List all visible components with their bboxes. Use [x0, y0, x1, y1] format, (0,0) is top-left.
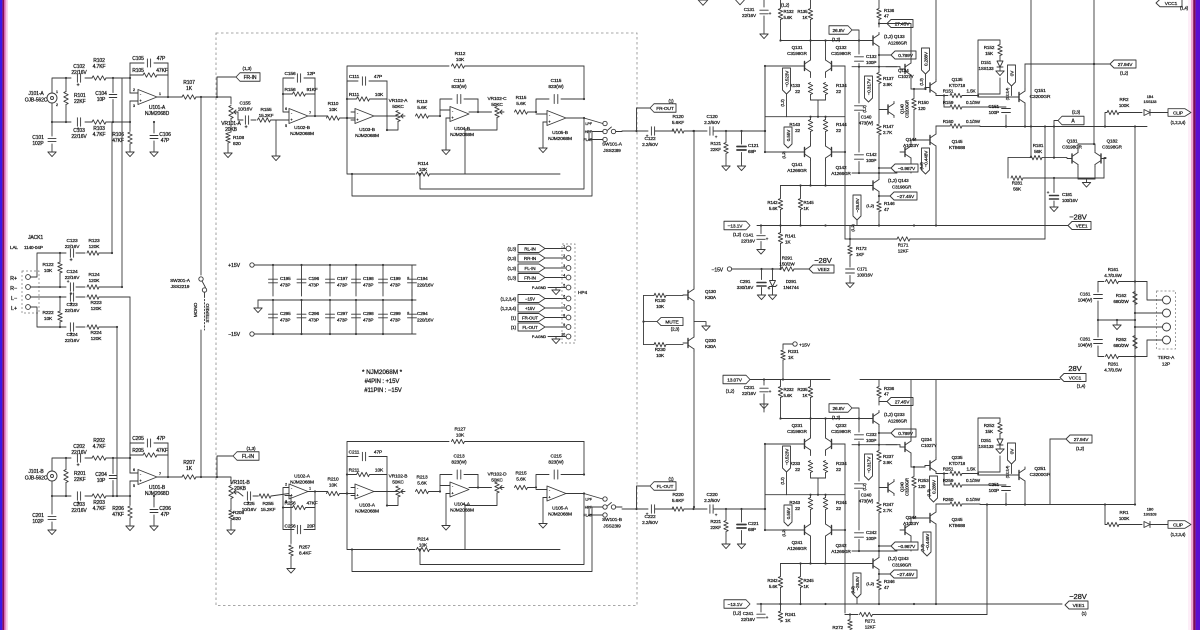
svg-text:U105-B: U105-B: [552, 130, 568, 136]
svg-text:A1266GR: A1266GR: [787, 168, 807, 173]
svg-text:22: 22: [795, 89, 800, 94]
svg-text:R291: R291: [782, 256, 793, 261]
svg-text:FL-IN: FL-IN: [525, 266, 536, 271]
svg-text:C101: C101: [32, 135, 44, 141]
svg-text:(1,2): (1,2): [851, 224, 855, 232]
wire fb return 2 (ch2): [351, 507, 592, 572]
svg-text:(2,3): (2,3): [507, 256, 516, 261]
power rail VCC ch1: [781, 3, 790, 8]
svg-text:SW201-A: SW201-A: [170, 278, 191, 284]
wire fb return 1 (ch2): [419, 494, 584, 565]
svg-text:-: -: [452, 108, 454, 113]
capacitor C211 (ch2): [347, 450, 387, 494]
svg-text:22: 22: [836, 506, 841, 511]
svg-text:5.6K: 5.6K: [417, 481, 427, 487]
svg-text:R101: R101: [74, 93, 86, 99]
diode D281: [1144, 508, 1168, 528]
svg-text:C251: C251: [988, 482, 999, 487]
rail collector NPN 2: [779, 417, 868, 419]
wire cap bank mid: [254, 300, 416, 313]
svg-text:(1,2): (1,2): [866, 581, 874, 586]
wire U102-A fb (ch2): [308, 490, 327, 529]
svg-text:NJM2068M: NJM2068M: [450, 132, 474, 138]
resistor R133: [789, 74, 812, 100]
svg-text:NJM2068M: NJM2068M: [450, 508, 474, 514]
svg-text:1: 1: [159, 92, 161, 96]
resistor R205: [130, 448, 168, 457]
svg-text:C3198GR: C3198GR: [892, 563, 912, 568]
svg-text:JSS23I9: JSS23I9: [603, 524, 621, 530]
wire mid speaker: [1097, 319, 1136, 321]
transistor Q143: [868, 178, 912, 194]
svg-text:FR-IN: FR-IN: [244, 75, 257, 81]
svg-text:(1,2): (1,2): [782, 151, 786, 159]
svg-text:FLAT: FLAT: [583, 138, 592, 142]
wire U101-A -in: [129, 77, 131, 93]
svg-text:R251: R251: [943, 467, 954, 472]
svg-text:R137: R137: [883, 76, 894, 81]
svg-text:680/2W: 680/2W: [1113, 343, 1129, 348]
capacitor C161: [1078, 282, 1103, 321]
flag -26.8V 2: [851, 573, 861, 604]
svg-text:2: 2: [56, 103, 58, 107]
transistor Q235: [925, 455, 966, 474]
svg-text:(1,3): (1,3): [927, 489, 931, 497]
wire Q135 collector: [935, 380, 937, 458]
svg-text:22/16V: 22/16V: [71, 450, 87, 456]
transistor Q234: [886, 437, 937, 455]
wire Q142 col down: [824, 538, 826, 565]
flag -13.1V 2: [724, 600, 750, 616]
flag -0.317V 1: [863, 76, 873, 113]
svg-text:100P: 100P: [866, 158, 876, 163]
resistor R150: [912, 89, 929, 141]
svg-text:C206: C206: [159, 506, 171, 512]
svg-text:12P: 12P: [307, 71, 315, 77]
left page border: [0, 0, 8, 630]
wire jack A bottom: [52, 103, 71, 122]
svg-text:473P: 473P: [337, 318, 347, 323]
wire U104-A fb (ch2): [469, 475, 488, 489]
svg-text:1K: 1K: [802, 393, 807, 398]
resistor R241: [778, 604, 796, 623]
svg-text:(1,3): (1,3): [920, 78, 924, 86]
svg-text:+: +: [646, 512, 649, 517]
svg-text:0.55V: 0.55V: [786, 129, 791, 142]
svg-text:Q130: Q130: [705, 289, 716, 294]
svg-text:C106: C106: [159, 132, 171, 138]
svg-text:47KF: 47KF: [112, 512, 124, 518]
svg-text:47: 47: [884, 207, 889, 212]
capacitor C105: [130, 56, 168, 78]
capacitor C220: [704, 492, 766, 518]
svg-text:2.2/50V: 2.2/50V: [704, 120, 721, 126]
svg-text:(1,2): (1,2): [1120, 71, 1129, 76]
svg-text:1K: 1K: [785, 240, 791, 245]
svg-text:4.7/0.5W: 4.7/0.5W: [1104, 368, 1122, 373]
flag −15V (HP4): [501, 295, 566, 303]
svg-text:473P: 473P: [309, 318, 319, 323]
svg-text:R123: R123: [88, 238, 99, 244]
svg-text:120: 120: [918, 106, 926, 111]
svg-text:C115: C115: [551, 78, 562, 84]
flag CLIP lower: [1168, 521, 1191, 537]
wire fb return 2 (ch1): [351, 132, 592, 197]
wire U101-B +in: [129, 481, 131, 497]
wire Q134 emitter: [878, 22, 911, 61]
svg-text:R134: R134: [836, 83, 847, 88]
svg-text:R201: R201: [74, 471, 86, 477]
ground U102-B +in (ch1): [272, 120, 285, 161]
wire Q133 col: [878, 427, 880, 445]
svg-text:15.2KF: 15.2KF: [259, 113, 274, 119]
ground P-AGND upper: [532, 286, 566, 295]
svg-text:C3198GR: C3198GR: [831, 51, 852, 56]
op-amp U101-B: [130, 468, 170, 497]
svg-text:VR101-B: VR101-B: [230, 480, 250, 486]
svg-text:RL-IN: RL-IN: [524, 246, 536, 251]
svg-text:C124: C124: [66, 269, 77, 275]
svg-text:R112: R112: [455, 51, 466, 57]
svg-text:VEE1: VEE1: [1073, 603, 1085, 609]
svg-text:(1): (1): [511, 325, 517, 330]
svg-text:C194: C194: [417, 276, 428, 281]
flag FL-IN: [217, 446, 259, 477]
capacitor C111 (ch1): [347, 74, 387, 118]
svg-text:+: +: [548, 119, 551, 124]
svg-text:68P: 68P: [748, 149, 756, 154]
svg-text:R121: R121: [710, 141, 721, 146]
resistor R101: [64, 77, 86, 123]
resistor R255: [259, 494, 289, 514]
svg-text:C197: C197: [337, 276, 348, 281]
svg-text:50KC: 50KC: [491, 478, 503, 484]
svg-text:(1,2): (1,2): [781, 3, 790, 8]
svg-text:22: 22: [795, 506, 800, 511]
flag -0.317V 2: [863, 454, 873, 491]
svg-text:P-AGND: P-AGND: [532, 335, 547, 339]
resistor R136: [877, 0, 895, 27]
right page border: [1188, 0, 1200, 630]
svg-text:CLIP: CLIP: [1173, 111, 1183, 116]
flag 26.8V 2: [829, 404, 859, 420]
resistor R135: [797, 0, 812, 58]
svg-text:+: +: [77, 83, 80, 89]
ground Q130 Q230: [702, 326, 710, 331]
capacitor C199: [379, 264, 402, 301]
svg-text:1: 1: [309, 487, 311, 491]
svg-text:-: -: [291, 486, 293, 491]
svg-text:10/16V: 10/16V: [242, 507, 258, 513]
svg-text:JACK1: JACK1: [28, 235, 43, 241]
svg-text:3: 3: [133, 104, 135, 108]
resistor R122: [42, 252, 62, 288]
svg-text:C221: C221: [748, 521, 759, 526]
svg-text:+15V: +15V: [228, 263, 240, 269]
svg-text:100/16V: 100/16V: [857, 272, 873, 277]
svg-text:22: 22: [795, 467, 800, 472]
svg-text:−26.8V: −26.8V: [855, 197, 860, 212]
svg-text:+: +: [451, 491, 454, 496]
switch SW201-A: [170, 97, 211, 477]
svg-text:+15V: +15V: [799, 343, 811, 349]
svg-text:10K: 10K: [456, 433, 465, 439]
resistor R245: [798, 562, 814, 605]
resistor R181: [1008, 0, 1067, 160]
svg-text:22: 22: [795, 128, 800, 133]
potentiometer VR102-C (ch1): [465, 96, 507, 174]
svg-text:47KF: 47KF: [156, 68, 168, 74]
svg-text:R210: R210: [327, 477, 338, 483]
connector JACK1: [10, 235, 43, 313]
svg-text:R151: R151: [943, 89, 954, 94]
svg-text:R152: R152: [984, 45, 995, 50]
svg-text:6: 6: [133, 468, 135, 472]
svg-text:3: 3: [563, 264, 565, 268]
wire R123 to bus: [111, 122, 113, 253]
wire U105-B out (ch1): [566, 117, 585, 119]
svg-text:R246: R246: [884, 579, 895, 584]
svg-text:10K: 10K: [44, 268, 53, 274]
svg-text:(1): (1): [668, 477, 674, 482]
svg-text:FL-IN: FL-IN: [242, 454, 254, 460]
op-amp U102-A (ch2): [285, 474, 314, 504]
svg-text:KTB688: KTB688: [949, 523, 966, 528]
capacitor c115 U105-B (ch1): [536, 78, 584, 112]
svg-text:R206: R206: [112, 506, 124, 512]
svg-text:1K: 1K: [804, 206, 809, 211]
flag VEE1 lower: [1065, 592, 1088, 616]
svg-text:Q245: Q245: [952, 517, 963, 522]
svg-text:C3200GR: C3200GR: [905, 478, 910, 496]
svg-text:C181: C181: [1062, 192, 1073, 197]
svg-text:+: +: [356, 117, 359, 122]
svg-text:100P: 100P: [866, 438, 876, 443]
wire Q130 source: [694, 303, 706, 326]
transistor Q141: [787, 144, 810, 173]
svg-text:91KF: 91KF: [306, 87, 317, 93]
node -15V rail: [228, 332, 416, 338]
svg-text:R244: R244: [836, 500, 847, 505]
svg-text:Q181: Q181: [1067, 139, 1078, 144]
resistor R132: [778, 0, 794, 41]
capacitor C140: [855, 67, 874, 152]
svg-text:R203: R203: [93, 500, 105, 506]
wire Q134 collector: [911, 455, 925, 468]
svg-text:10P: 10P: [97, 97, 106, 103]
svg-text:473P: 473P: [363, 318, 373, 323]
svg-text:Q135: Q135: [952, 77, 963, 82]
capacitor C213 (ch2): [440, 454, 478, 492]
svg-text:Q235: Q235: [952, 455, 963, 460]
svg-text:1B4: 1B4: [1147, 95, 1153, 99]
svg-text:RR1: RR1: [1120, 510, 1129, 515]
resistor R235: [797, 380, 812, 437]
capacitor C297: [326, 300, 349, 335]
rail VAS lower 2: [852, 550, 897, 552]
svg-text:47: 47: [884, 14, 889, 19]
svg-text:7: 7: [159, 472, 161, 476]
svg-text:VCC1: VCC1: [1165, 1, 1178, 7]
svg-text:−13.1V: −13.1V: [728, 223, 744, 229]
svg-text:C102: C102: [73, 64, 85, 70]
svg-text:120K: 120K: [91, 336, 103, 342]
svg-text:120K: 120K: [91, 306, 103, 312]
svg-text:R222: R222: [42, 310, 53, 316]
flag -0.448V 1: [920, 148, 930, 174]
svg-text:R124: R124: [88, 272, 99, 278]
wire jack L-: [31, 296, 67, 298]
svg-text:C1027Y: C1027Y: [921, 443, 937, 448]
capacitor C171: [846, 267, 873, 284]
resistor R232: [778, 380, 794, 419]
svg-text:22/16V: 22/16V: [741, 239, 756, 244]
svg-text:R143: R143: [789, 122, 800, 127]
svg-text:−28V: −28V: [1069, 213, 1088, 222]
svg-text:C297: C297: [337, 311, 348, 316]
svg-text:LPF: LPF: [585, 498, 592, 502]
svg-text:1K: 1K: [785, 618, 791, 623]
svg-text:C198: C198: [363, 276, 374, 281]
wire Q143 col: [878, 551, 880, 556]
wire Q133 col: [878, 49, 880, 67]
svg-text:C196: C196: [309, 276, 320, 281]
transistor Q232: [826, 423, 852, 452]
svg-text:(1,3): (1,3): [247, 446, 257, 451]
svg-text:+: +: [766, 615, 769, 620]
svg-text:47: 47: [884, 392, 889, 397]
resistor R203: [85, 494, 130, 512]
connector TER2-A: [1135, 282, 1176, 368]
svg-text:R207: R207: [183, 460, 195, 466]
svg-text:(1): (1): [511, 316, 517, 321]
svg-text:50KC: 50KC: [392, 480, 404, 486]
wire jack A top: [52, 78, 71, 93]
svg-text:RR2: RR2: [1120, 97, 1129, 102]
svg-text:+: +: [548, 495, 551, 500]
svg-text:(1,2): (1,2): [851, 586, 855, 594]
capacitor C203: [71, 492, 87, 514]
capacitor C204: [95, 457, 117, 497]
resistor R281: [1008, 158, 1106, 192]
svg-text:KTB688: KTB688: [949, 145, 966, 150]
flag FR-OUT: [637, 99, 677, 132]
svg-text:R211: R211: [349, 468, 360, 474]
wire jack R-: [31, 286, 67, 288]
svg-text:Q251: Q251: [1034, 466, 1046, 472]
svg-text:-: -: [549, 488, 551, 493]
resistor R120: [672, 114, 707, 133]
capacitor C224: [65, 323, 85, 344]
resistor R260: [936, 497, 981, 510]
capacitor C151: [988, 104, 1010, 128]
svg-text:R271: R271: [865, 619, 876, 624]
capacitor C132: [855, 41, 878, 67]
svg-text:C3200GR: C3200GR: [1030, 472, 1051, 478]
rail VEE 1: [757, 224, 1068, 226]
svg-text:U103-B: U103-B: [359, 127, 375, 133]
resistor R124: [87, 272, 123, 289]
svg-text:1SS133: 1SS133: [978, 66, 994, 71]
wire U101-B -in: [129, 457, 131, 473]
svg-text:22: 22: [836, 128, 841, 133]
svg-text:R221: R221: [710, 519, 721, 524]
svg-text:-: -: [357, 486, 359, 491]
capacitor C221: [737, 509, 759, 549]
svg-text:R132: R132: [784, 9, 795, 14]
svg-text:(1,2) Q233: (1,2) Q233: [884, 412, 905, 417]
op-amp U102-B (ch1): [285, 107, 314, 137]
resistor RR1: [1104, 503, 1142, 526]
svg-text:0.286V: 0.286V: [931, 479, 936, 494]
note NJM2068M pins: [362, 369, 403, 394]
dashed filter section box: [216, 33, 637, 606]
power rail 13.07V ch2: [723, 375, 1060, 393]
svg-text:15K: 15K: [985, 429, 994, 434]
resistor R252 box: [978, 418, 1002, 474]
svg-text:(1,2) Q143: (1,2) Q143: [888, 178, 909, 183]
op-amp U104-B (ch1): [440, 107, 474, 139]
svg-text:R−: R−: [10, 286, 17, 292]
svg-text:120K: 120K: [89, 278, 101, 284]
svg-text:(1,2): (1,2): [726, 389, 735, 394]
svg-text:VEE1: VEE1: [1076, 223, 1088, 229]
svg-text:56K: 56K: [1034, 149, 1043, 154]
svg-text:FR-OUT: FR-OUT: [656, 106, 674, 112]
capacitor C104: [95, 77, 117, 123]
svg-text:R241: R241: [785, 612, 796, 617]
svg-text:+: +: [290, 117, 293, 122]
svg-text:−0.987V: −0.987V: [898, 544, 916, 550]
svg-text:(1): (1): [1082, 611, 1088, 616]
svg-text:R156: R156: [284, 87, 295, 93]
capacitor C240: [855, 445, 874, 530]
svg-text:473P: 473P: [363, 283, 373, 288]
wire Q134 collector: [911, 77, 925, 90]
svg-text:(1,2,3,4): (1,2,3,4): [1006, 88, 1010, 100]
svg-text:C195: C195: [280, 276, 291, 281]
resistor R214 (ch2): [347, 494, 560, 552]
ground U104-A +in (ch2): [442, 494, 450, 531]
wire Q141 col down: [809, 538, 811, 565]
svg-text:-: -: [357, 110, 359, 115]
op-amp U103-A (ch2): [351, 484, 398, 515]
svg-text:R214: R214: [417, 537, 428, 543]
resistor R251: [936, 467, 979, 476]
svg-text:0.288V: 0.288V: [923, 51, 928, 66]
svg-text:(1,3): (1,3): [507, 266, 516, 271]
svg-text:C203: C203: [73, 502, 85, 508]
svg-text:50KC: 50KC: [491, 102, 503, 108]
svg-text:473P: 473P: [337, 283, 347, 288]
svg-text:1KF: 1KF: [856, 252, 864, 257]
svg-text:10/16V: 10/16V: [238, 107, 254, 113]
svg-text:R150: R150: [918, 100, 929, 105]
svg-text:102P: 102P: [32, 519, 44, 525]
resistor R237: [877, 445, 894, 501]
wire Q132 col up: [824, 39, 826, 58]
svg-text:C231: C231: [744, 385, 755, 390]
svg-text:Q132: Q132: [836, 45, 847, 50]
capacitor C225: [238, 492, 258, 513]
svg-text:−15V: −15V: [712, 268, 724, 274]
connector HP4: [561, 244, 587, 343]
svg-text:27.45V: 27.45V: [895, 21, 911, 27]
svg-text:10K: 10K: [375, 92, 384, 98]
svg-text:−0.523V: −0.523V: [784, 448, 789, 466]
svg-text:+: +: [1047, 190, 1050, 195]
op-amp U101-A: [130, 88, 170, 117]
